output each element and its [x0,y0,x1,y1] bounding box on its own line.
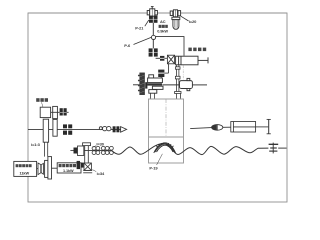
air pipe to cylinder [156,37,184,56]
dynamometer (syringe) [190,119,271,133]
svg-text:P-21: P-21 [135,25,144,30]
support column under cylinder [175,65,181,99]
label P-6 [124,37,151,48]
label i=30 [94,141,105,147]
svg-text:P-19: P-19 [149,166,158,171]
coupling ball [151,35,155,39]
gear blocks right of box2 [77,161,84,169]
main shaft stub left [133,84,140,86]
centerline below cylinder [182,66,184,80]
dark symbol on L2 [113,126,120,132]
lower pulley column [45,157,58,179]
AC motor cylinder hanging [172,17,180,29]
svg-text:i=20: i=20 [189,19,197,24]
shaft down to G2 [152,40,154,49]
vertical shaft from G1 [152,23,154,35]
pulley bars [43,106,57,142]
shaft right from G2 [156,57,160,59]
pulley assembly A1 on top line [147,7,157,17]
circles on L2 [99,126,111,130]
text 稳压气缸 [188,48,206,52]
gearbox cluster on main shaft [148,75,163,93]
coupling discs [37,163,44,175]
L3 line [84,149,112,151]
svg-text:AC: AC [160,19,166,24]
big rectangle (stand) [149,99,184,163]
gear pair G1 (dark) below A1 [149,16,158,23]
label i=34 [92,170,105,176]
encoder row [36,98,48,102]
motor assembly A2 on top line [170,10,180,17]
hatched hump in stand [154,143,176,153]
clutch dark blocks on L2 [63,124,72,134]
rope wave [111,144,268,155]
rope clamp right [269,143,279,154]
cable drum [180,78,193,90]
straightener column [83,143,93,173]
belt lines down [44,142,47,156]
die box on L3 [74,148,78,154]
svg-text:11kW: 11kW [20,171,30,176]
straightening rollers [92,146,113,154]
big gear (hatched bar) [138,73,147,95]
svg-text:i=30: i=30 [96,141,104,146]
label i=20 [181,16,197,24]
svg-text:1.1kW: 1.1kW [63,169,74,173]
top shaft line (on frame top) [28,12,287,14]
bearing block with X [167,55,174,64]
machine frame border [28,13,287,202]
pneumatic cylinder [176,56,208,65]
label P-21 [135,20,149,30]
shaft to drum [162,84,179,86]
motor box2 [57,163,81,173]
gear pair mid (dark) [158,70,164,77]
motor box1 [14,161,37,176]
label P-19 [149,154,162,171]
gear pair G2 (dark) [149,48,158,56]
svg-text:i=1:3: i=1:3 [31,142,41,147]
L2 shaft row [28,127,127,133]
svg-text:0.9kW: 0.9kW [157,29,168,34]
svg-text:i=34: i=34 [97,171,105,176]
svg-text:P-6: P-6 [124,43,131,48]
coupling blocks (dark) [160,56,164,61]
